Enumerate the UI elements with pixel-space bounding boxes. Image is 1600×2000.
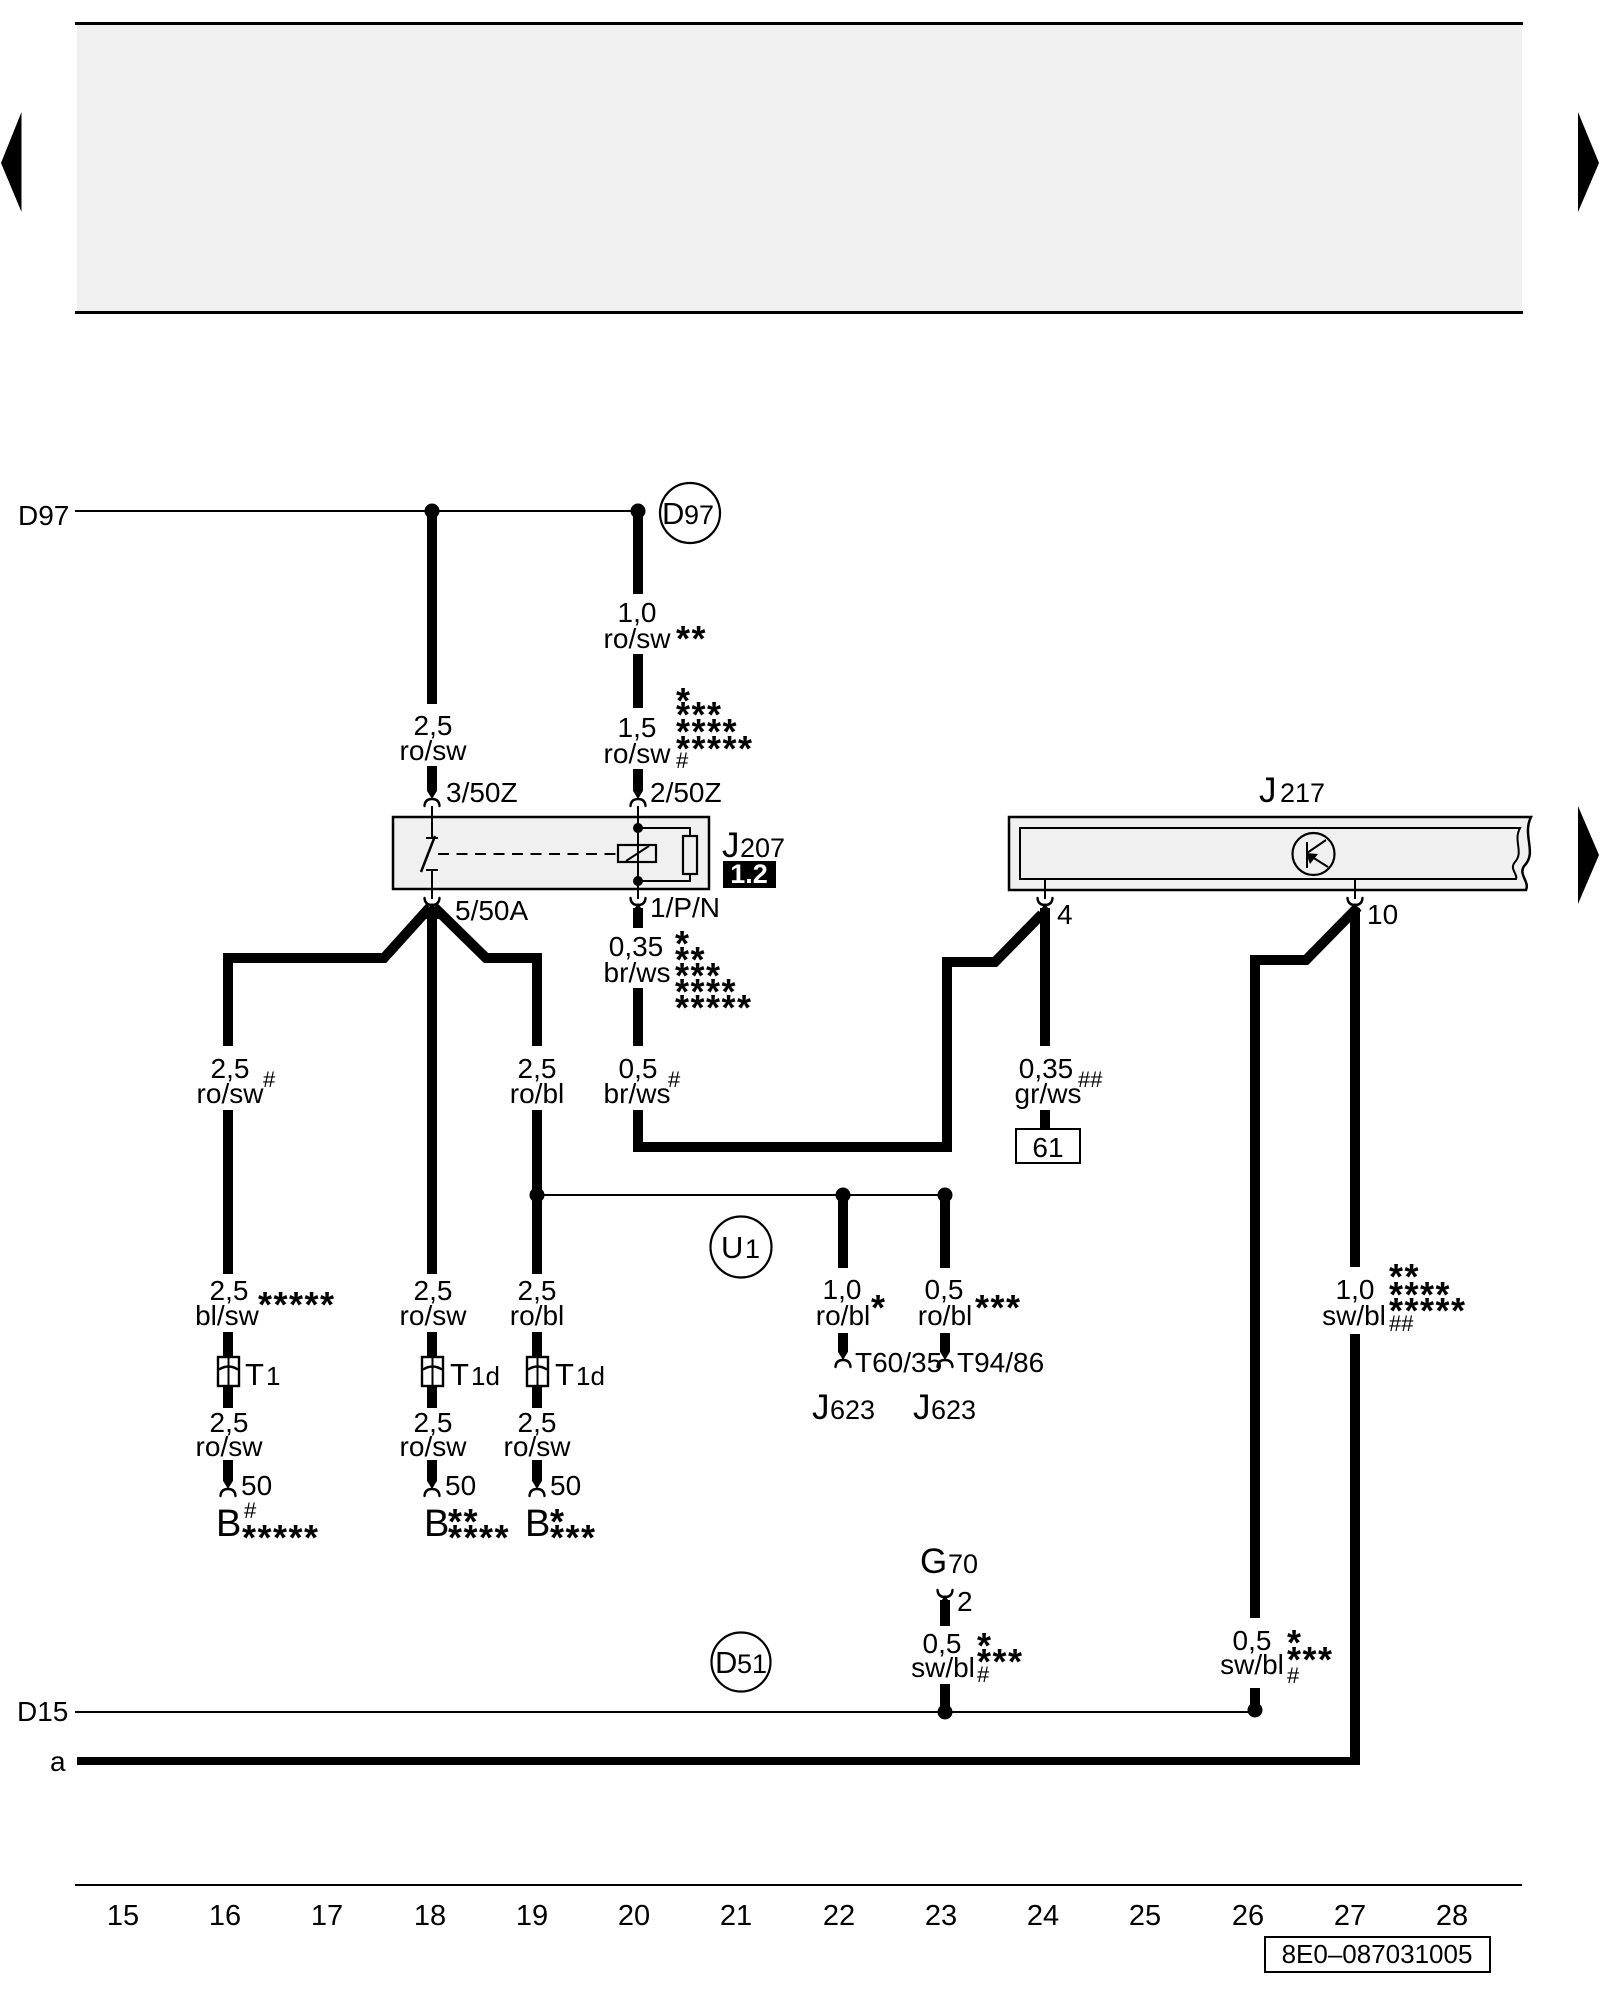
wire G70 stub: [940, 1600, 950, 1626]
svg-text:ro/sw: ro/sw: [400, 1431, 468, 1462]
label col18 2,5 ro/sw: [400, 1275, 468, 1331]
svg-text:623: 623: [830, 1395, 875, 1425]
node circle D51: [712, 1633, 771, 1692]
wire col16 below T1: [223, 1386, 233, 1408]
svg-text:#: #: [676, 748, 689, 773]
label 0,35 br/ws with asterisk pyramid: [604, 923, 753, 1028]
svg-text:2: 2: [957, 1586, 973, 1617]
svg-text:ro/sw: ro/sw: [400, 735, 468, 766]
svg-text:D: D: [715, 1645, 737, 1680]
label J623 right: [913, 1388, 976, 1427]
part number box 8E0-087031005: [1265, 1937, 1490, 1972]
svg-text:623: 623: [931, 1395, 976, 1425]
svg-text:51: 51: [737, 1649, 767, 1679]
J217 transistor symbol: [1293, 833, 1335, 875]
svg-text:4: 4: [1057, 899, 1073, 930]
svg-text:19: 19: [516, 1900, 548, 1932]
svg-text:B: B: [424, 1503, 449, 1545]
wire a thick line: [77, 1757, 1360, 1765]
svg-text:97: 97: [684, 500, 714, 530]
label col18 2,5 ro/sw lower: [400, 1407, 468, 1462]
ground label B * *** col19: [525, 1501, 597, 1558]
svg-text:22: 22: [823, 1900, 855, 1932]
terminal box 61: [1016, 1129, 1080, 1163]
svg-text:U: U: [721, 1230, 743, 1265]
wire col18 below T1d: [427, 1386, 437, 1408]
wire col23 to terminal: [940, 1333, 950, 1352]
svg-text:24: 24: [1027, 1900, 1059, 1932]
svg-text:50: 50: [445, 1470, 476, 1501]
label 0,5 ro/bl ***: [918, 1274, 1022, 1331]
terminal T60/35: [836, 1347, 943, 1378]
wire col22 stub: [838, 1195, 848, 1268]
terminal T94/86: [938, 1347, 1045, 1378]
svg-text:B: B: [525, 1503, 550, 1545]
right page arrow top: [1578, 112, 1599, 212]
label col16 2,5 ro/sw: [196, 1407, 264, 1462]
svg-text:*****: *****: [242, 1517, 320, 1558]
relay internal junction dot lower: [633, 876, 643, 886]
svg-text:16: 16: [209, 1900, 241, 1932]
svg-text:26: 26: [1232, 1900, 1264, 1932]
svg-text:***: ***: [975, 1287, 1022, 1328]
svg-text:br/ws: br/ws: [604, 957, 671, 988]
svg-text:br/ws: br/ws: [604, 1078, 671, 1109]
svg-text:J: J: [913, 1388, 931, 1427]
relay coil: [618, 845, 656, 862]
svg-text:2/50Z: 2/50Z: [650, 777, 722, 808]
svg-text:1: 1: [745, 1234, 760, 1264]
svg-text:#: #: [1287, 1663, 1300, 1688]
wire pin10 vertical col27: [1350, 908, 1360, 1267]
terminal 2/50Z: [631, 777, 722, 817]
relay switch blade: [421, 836, 435, 872]
wire col19 mid: [532, 1110, 542, 1274]
label 1,0 sw/bl with stars col27: [1322, 1256, 1466, 1336]
J217 control unit box: [1009, 817, 1531, 890]
label col19 2,5 ro/sw lower: [504, 1407, 572, 1462]
wire col20 stub below 1/P/N: [633, 908, 643, 928]
wire Y right branch to col19: [434, 907, 537, 1046]
wire br/ws elbow to J217 pin 4: [638, 914, 1042, 1147]
svg-text:sw/bl: sw/bl: [911, 1652, 975, 1683]
label 0,5 sw/bl * *** # col23: [911, 1625, 1023, 1687]
right page arrow middle: [1578, 806, 1599, 904]
svg-text:ro/bl: ro/bl: [510, 1078, 564, 1109]
label col19 2,5 ro/bl lower: [510, 1275, 564, 1331]
junction dot col20/D97: [631, 504, 646, 519]
svg-text:25: 25: [1129, 1900, 1161, 1932]
svg-text:J: J: [1259, 771, 1277, 810]
svg-text:17: 17: [311, 1900, 343, 1932]
junction dot col19/U1 line: [530, 1188, 545, 1203]
wire col18 upper (2,5 ro/sw): [400, 511, 468, 791]
wire col19 above T1d: [532, 1332, 542, 1357]
svg-text:bl/sw: bl/sw: [195, 1300, 260, 1331]
svg-text:217: 217: [1280, 778, 1325, 808]
label J217: [1259, 771, 1325, 810]
wire col18 above T1d: [427, 1332, 437, 1357]
wire col20 lower: [633, 988, 643, 1046]
svg-text:1.2: 1.2: [730, 859, 768, 889]
left page arrow: [1, 112, 22, 212]
svg-text:8E0–087031005: 8E0–087031005: [1282, 1939, 1473, 1969]
terminal 50 col18: [425, 1460, 477, 1501]
grid numbers 15-28: [107, 1900, 1468, 1932]
junction dot col22/U1 line: [836, 1188, 851, 1203]
svg-text:50: 50: [241, 1470, 272, 1501]
label J623 left: [812, 1388, 875, 1427]
svg-text:***: ***: [550, 1517, 597, 1558]
svg-text:D: D: [662, 496, 684, 531]
wire col19 below T1d: [532, 1386, 542, 1408]
svg-text:T: T: [555, 1357, 574, 1392]
wire col16 mid: [223, 1110, 233, 1274]
svg-text:B: B: [216, 1503, 241, 1545]
wire D15 thin line: [75, 1711, 1255, 1713]
connector T1: [218, 1357, 280, 1392]
header panel: [75, 24, 1523, 314]
svg-text:T: T: [245, 1357, 264, 1392]
svg-text:#: #: [263, 1067, 276, 1092]
J217 pin 10: [1348, 879, 1399, 930]
junction dot G70/D15: [938, 1705, 953, 1720]
svg-text:1/P/N: 1/P/N: [650, 892, 720, 923]
svg-text:D15: D15: [17, 1696, 68, 1727]
svg-text:##: ##: [1389, 1311, 1414, 1336]
svg-text:gr/ws: gr/ws: [1015, 1078, 1082, 1109]
connector T1d col18: [422, 1357, 500, 1392]
svg-text:J: J: [812, 1388, 830, 1427]
label J207: [722, 826, 785, 865]
bottom scale line: [75, 1884, 1522, 1886]
svg-text:50: 50: [550, 1470, 581, 1501]
svg-text:T: T: [450, 1357, 469, 1392]
wire Y left branch to col16: [228, 907, 430, 1046]
relay actuation dashed link: [438, 853, 616, 855]
wire col20 label 1,5 ro/sw with asterisk pyramid: [604, 680, 754, 791]
terminal 50 col16: [221, 1460, 273, 1501]
wire col16 above T1: [223, 1332, 233, 1357]
svg-text:T94/86: T94/86: [957, 1347, 1044, 1378]
label 0,5 sw/bl * *** # col26: [1220, 1622, 1333, 1688]
relay internal junction dot upper: [633, 823, 643, 833]
terminal 50 col19: [530, 1460, 582, 1501]
svg-text:*: *: [871, 1287, 887, 1328]
junction dot col18/D97: [425, 504, 440, 519]
wire D97 horizontal: [75, 510, 638, 512]
wire col20 upper (1,0 ro/sw): [604, 511, 707, 708]
svg-text:20: 20: [618, 1900, 650, 1932]
label col16 2,5 ro/sw #: [197, 1053, 276, 1109]
junction dot col26/D15: [1248, 1703, 1263, 1718]
terminal 5/50A: [425, 889, 529, 926]
svg-text:****: ****: [448, 1517, 510, 1558]
label 0,35 ## gr/ws: [1015, 1053, 1104, 1109]
svg-text:ro/sw: ro/sw: [400, 1300, 468, 1331]
wire col26 to D15 line: [1250, 1688, 1260, 1710]
svg-text:*****: *****: [675, 987, 753, 1028]
svg-text:##: ##: [1078, 1067, 1103, 1092]
wire G70 to D15 line: [940, 1684, 950, 1712]
label 1,0 ro/bl *: [816, 1274, 887, 1331]
svg-text:70: 70: [948, 1549, 978, 1579]
svg-text:ro/sw: ro/sw: [604, 738, 672, 769]
node circle D97: [660, 483, 720, 543]
svg-text:sw/bl: sw/bl: [1220, 1649, 1284, 1680]
wire col27 lower joining line a: [1350, 1334, 1360, 1765]
svg-text:G: G: [920, 1542, 947, 1581]
relay switch contact lower: [426, 870, 438, 889]
wire Y-junction from 5/50A: center branch col18: [427, 908, 437, 1274]
wire pin10 branch: diagonal elbow to col26: [1255, 907, 1358, 1618]
wire U1 thin line: [537, 1194, 945, 1196]
svg-text:1: 1: [266, 1361, 280, 1391]
wire col23 stub: [940, 1195, 950, 1268]
svg-text:15: 15: [107, 1900, 139, 1932]
terminal 2 of G70: [938, 1586, 973, 1617]
svg-text:a: a: [50, 1746, 66, 1777]
svg-text:sw/bl: sw/bl: [1322, 1300, 1386, 1331]
svg-text:ro/sw: ro/sw: [604, 623, 672, 654]
svg-text:T60/35: T60/35: [855, 1347, 942, 1378]
svg-text:ro/sw: ro/sw: [197, 1078, 265, 1109]
svg-text:ro/sw: ro/sw: [196, 1431, 264, 1462]
svg-text:D97: D97: [18, 500, 69, 531]
svg-text:10: 10: [1367, 899, 1398, 930]
relay parallel resistor: [638, 828, 697, 881]
wire pin4 vertical (0,35 gr/ws): [1040, 908, 1050, 1046]
relay J207 box: [393, 817, 709, 889]
svg-text:61: 61: [1032, 1132, 1063, 1163]
svg-text:*****: *****: [258, 1284, 336, 1325]
svg-text:5/50A: 5/50A: [455, 895, 528, 926]
label 1.2 black tag: [723, 859, 776, 889]
svg-text:18: 18: [414, 1900, 446, 1932]
svg-text:1d: 1d: [576, 1361, 605, 1391]
svg-text:3/50Z: 3/50Z: [446, 777, 518, 808]
label 0,5 br/ws #: [604, 1053, 681, 1109]
svg-text:#: #: [668, 1067, 681, 1092]
svg-text:27: 27: [1334, 1900, 1366, 1932]
node circle U1: [711, 1217, 772, 1278]
svg-text:ro/bl: ro/bl: [510, 1300, 564, 1331]
relay coil vertical wire: [637, 817, 639, 889]
svg-text:ro/bl: ro/bl: [918, 1300, 972, 1331]
J217 pin 4: [1038, 879, 1073, 930]
wire col22 to terminal: [838, 1333, 848, 1352]
svg-text:ro/sw: ro/sw: [504, 1431, 572, 1462]
junction dot col23/U1 line: [938, 1188, 953, 1203]
svg-text:1d: 1d: [471, 1361, 500, 1391]
svg-text:21: 21: [720, 1900, 752, 1932]
svg-text:28: 28: [1436, 1900, 1468, 1932]
terminal 1/P/N: [631, 889, 721, 923]
label G70: [920, 1542, 978, 1581]
connector T1d col19: [527, 1357, 605, 1392]
svg-text:23: 23: [925, 1900, 957, 1932]
svg-text:**: **: [676, 618, 707, 659]
wire pin4 lower stub: [1040, 1110, 1050, 1129]
label col19 2,5 ro/bl: [510, 1053, 564, 1109]
svg-text:ro/bl: ro/bl: [816, 1300, 870, 1331]
svg-text:#: #: [977, 1662, 990, 1687]
terminal 3/50Z: [425, 777, 518, 817]
relay switch contact upper: [426, 817, 438, 838]
